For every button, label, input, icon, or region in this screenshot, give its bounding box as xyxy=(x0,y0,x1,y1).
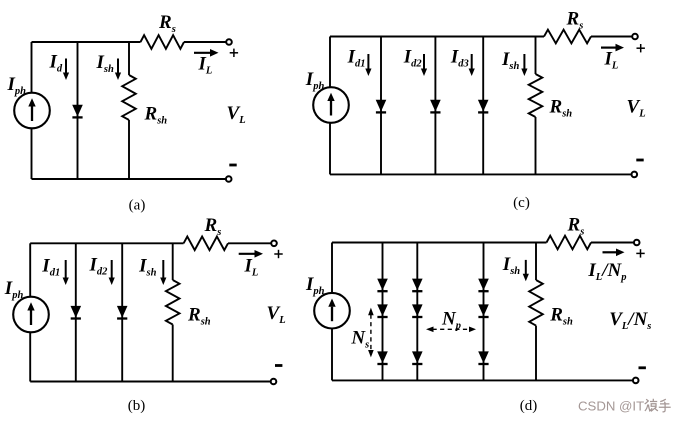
diode D2c (d) xyxy=(412,351,423,365)
svg-text:(b): (b) xyxy=(128,398,146,414)
plus terminal polarity c xyxy=(637,44,645,52)
circuit (d): PV module model with Ns x Np cells xyxy=(305,215,651,415)
svg-text:Ish: Ish xyxy=(96,52,114,75)
diode D2a (d) xyxy=(412,279,423,293)
current source Iph (d) (circle with up arrow) xyxy=(314,293,350,329)
wire a shunt branch lower xyxy=(128,120,130,179)
wire b shunt branch upper xyxy=(172,243,174,280)
svg-text:Ish: Ish xyxy=(502,254,520,277)
arrow Id2 (b) (downward current arrow) xyxy=(109,260,115,285)
svg-text:Np: Np xyxy=(441,309,461,332)
wire c left branch lower xyxy=(329,123,331,175)
svg-text:IL: IL xyxy=(604,49,619,72)
current source Iph (b) (circle with up arrow) xyxy=(13,297,49,333)
arrow Id1 (b) (downward current arrow) xyxy=(63,260,69,285)
svg-text:CSDN @IT: CSDN @IT xyxy=(578,399,644,414)
diode D3a (d) xyxy=(478,279,489,293)
arrow Id1 (c) (downward current arrow) xyxy=(365,54,371,76)
wire c top bus left segment xyxy=(330,36,544,38)
wire a bottom bus xyxy=(32,178,227,180)
svg-text:Rs: Rs xyxy=(158,12,176,35)
wire b top output segment xyxy=(228,242,271,244)
svg-text:IL/Np: IL/Np xyxy=(587,260,626,283)
wire c diode-2 branch xyxy=(434,37,436,175)
minus terminal polarity c xyxy=(636,159,643,162)
resistor Rs (a) (series resistor zigzag) xyxy=(141,35,185,49)
terminal d negative output (open circle) xyxy=(633,378,639,384)
svg-text:VL/Ns: VL/Ns xyxy=(609,309,651,332)
plus terminal polarity d xyxy=(636,249,644,257)
arrow Id (a) (downward current arrow) xyxy=(63,59,69,81)
diode D2 (c) xyxy=(430,100,441,114)
wire b left branch lower xyxy=(29,332,31,381)
svg-text:(c): (c) xyxy=(513,195,530,211)
resistor Rs (b) (series resistor zigzag) xyxy=(184,237,228,251)
svg-text:VL: VL xyxy=(227,103,246,126)
resistor Rsh (c) (shunt resistor zigzag) xyxy=(529,74,543,117)
wire a top output segment xyxy=(184,41,226,43)
wire c shunt branch upper xyxy=(535,37,537,75)
diode D3c (d) xyxy=(478,351,489,365)
wire d diode string 2 branch xyxy=(416,243,418,381)
wire d top bus left segment xyxy=(332,242,547,244)
svg-text:Ns: Ns xyxy=(350,328,369,351)
diode D3 (c) xyxy=(478,100,489,114)
svg-text:(a): (a) xyxy=(129,198,146,214)
arrow IL/Np (d) (rightward current arrow) xyxy=(603,249,625,257)
wire c bottom bus xyxy=(330,173,632,175)
diode D1 (c) xyxy=(376,100,387,114)
wire c left branch upper xyxy=(329,37,331,88)
arrow Ish (c) (downward current arrow) xyxy=(521,54,527,76)
plus terminal polarity a xyxy=(230,49,238,57)
svg-text:Id2: Id2 xyxy=(403,47,423,70)
arrow Ish (b) (downward current arrow) xyxy=(160,260,166,285)
circuit (b): two-diode PV cell model xyxy=(4,215,286,414)
svg-text:Iph: Iph xyxy=(7,74,27,97)
wire a left branch upper xyxy=(31,42,33,93)
diode D (a) xyxy=(72,105,83,119)
wire b bottom bus xyxy=(30,381,271,383)
wire c diode-1 branch xyxy=(380,37,382,175)
plus terminal polarity b xyxy=(274,250,282,258)
terminal c negative output (open circle) xyxy=(632,172,638,178)
svg-text:Id: Id xyxy=(49,52,63,75)
circuit (a): single-diode PV cell model xyxy=(7,12,246,214)
wire a shunt branch upper xyxy=(128,42,130,75)
svg-text:Rs: Rs xyxy=(204,215,222,238)
arrow Id2 (c) (downward current arrow) xyxy=(421,54,427,76)
wire d bottom bus xyxy=(332,379,633,381)
wire c diode-3 branch xyxy=(482,37,484,175)
current source Iph (a) (circle with up arrow) xyxy=(14,93,50,129)
diode D3b (d) xyxy=(478,304,489,318)
arrow IL (a) (rightward current arrow) xyxy=(194,49,219,57)
svg-text:(d): (d) xyxy=(520,398,538,414)
svg-text:IL: IL xyxy=(198,54,213,77)
current source Iph (c) (circle with up arrow) xyxy=(313,87,349,123)
svg-text:Ish: Ish xyxy=(138,256,156,279)
diode D2 (b) xyxy=(117,306,128,320)
svg-text:VL: VL xyxy=(267,303,286,326)
arrow Np (horizontal dashed extent arrow) xyxy=(426,327,476,333)
minus terminal polarity b xyxy=(275,364,282,367)
wire a diode branch xyxy=(77,42,79,179)
wire d left branch lower xyxy=(331,329,333,381)
svg-text:Id2: Id2 xyxy=(89,255,109,278)
svg-text:Rsh: Rsh xyxy=(549,97,573,120)
svg-text:Iph: Iph xyxy=(4,278,24,301)
circuit (c): three-diode PV cell model xyxy=(305,9,646,212)
svg-text:Rs: Rs xyxy=(567,215,585,238)
svg-text:Id1: Id1 xyxy=(41,256,60,279)
svg-text:Rsh: Rsh xyxy=(187,305,211,328)
svg-text:VL: VL xyxy=(627,97,646,120)
svg-text:Id3: Id3 xyxy=(450,47,469,70)
wire b left branch upper xyxy=(29,243,31,296)
arrow Ish (d) (downward current arrow) xyxy=(523,260,529,281)
svg-text:Rs: Rs xyxy=(566,9,584,32)
wire d shunt branch upper xyxy=(535,243,537,281)
resistor Rs (c) (series resistor zigzag) xyxy=(544,30,591,44)
wire c top output segment xyxy=(591,36,632,38)
svg-text:Rsh: Rsh xyxy=(144,104,168,127)
diode D1b (d) xyxy=(377,304,388,318)
terminal c positive output (open circle) xyxy=(632,34,638,40)
wire d left branch upper xyxy=(331,243,333,293)
svg-text:Iph: Iph xyxy=(305,274,325,297)
wire c shunt branch lower xyxy=(535,117,537,174)
wire d diode string 1 branch xyxy=(382,243,384,381)
diode D1 (b) xyxy=(71,306,82,320)
resistor Rsh (b) (shunt resistor zigzag) xyxy=(166,280,180,325)
wire b shunt branch lower xyxy=(172,325,174,382)
diode D2b (d) xyxy=(412,304,423,318)
arrow Ns (vertical dashed extent arrow) xyxy=(368,308,374,358)
svg-text:Rsh: Rsh xyxy=(549,305,573,328)
terminal b positive output (open circle) xyxy=(271,241,277,247)
wire b diode-2 branch xyxy=(121,243,123,381)
resistor Rsh (d) (shunt resistor zigzag) xyxy=(529,280,543,326)
resistor Rs (d) (series resistor zigzag) xyxy=(547,236,592,250)
svg-text:Iph: Iph xyxy=(305,69,325,92)
wire b diode-1 branch xyxy=(75,243,77,381)
wire b top bus left segment xyxy=(30,242,183,244)
arrow Ish (a) (downward current arrow) xyxy=(115,59,121,81)
wire d shunt branch lower xyxy=(535,326,537,381)
diode D1c (d) xyxy=(377,351,388,365)
wire a top bus left segment xyxy=(32,41,141,43)
resistor Rsh (a) (shunt resistor zigzag) xyxy=(122,75,136,120)
minus terminal polarity d xyxy=(639,366,646,369)
svg-text:Ish: Ish xyxy=(501,49,519,72)
diode D1a (d) xyxy=(377,279,388,293)
svg-text:Id1: Id1 xyxy=(347,47,366,70)
wire d top output segment xyxy=(591,242,634,244)
arrow IL (c) (rightward current arrow) xyxy=(601,44,624,52)
svg-text:IL: IL xyxy=(244,256,259,279)
wire a left branch lower xyxy=(31,128,33,179)
terminal a positive output (open circle) xyxy=(226,39,232,45)
wire d diode string 3 branch xyxy=(483,243,485,381)
arrow IL (b) (rightward current arrow) xyxy=(239,250,263,258)
arrow Id3 (c) (downward current arrow) xyxy=(469,54,475,76)
terminal b negative output (open circle) xyxy=(271,379,277,385)
minus terminal polarity a xyxy=(229,164,236,167)
watermark CSDN @IT(yuan)(shou) xyxy=(578,399,671,414)
terminal d positive output (open circle) xyxy=(634,240,640,246)
terminal a negative output (open circle) xyxy=(226,176,232,182)
